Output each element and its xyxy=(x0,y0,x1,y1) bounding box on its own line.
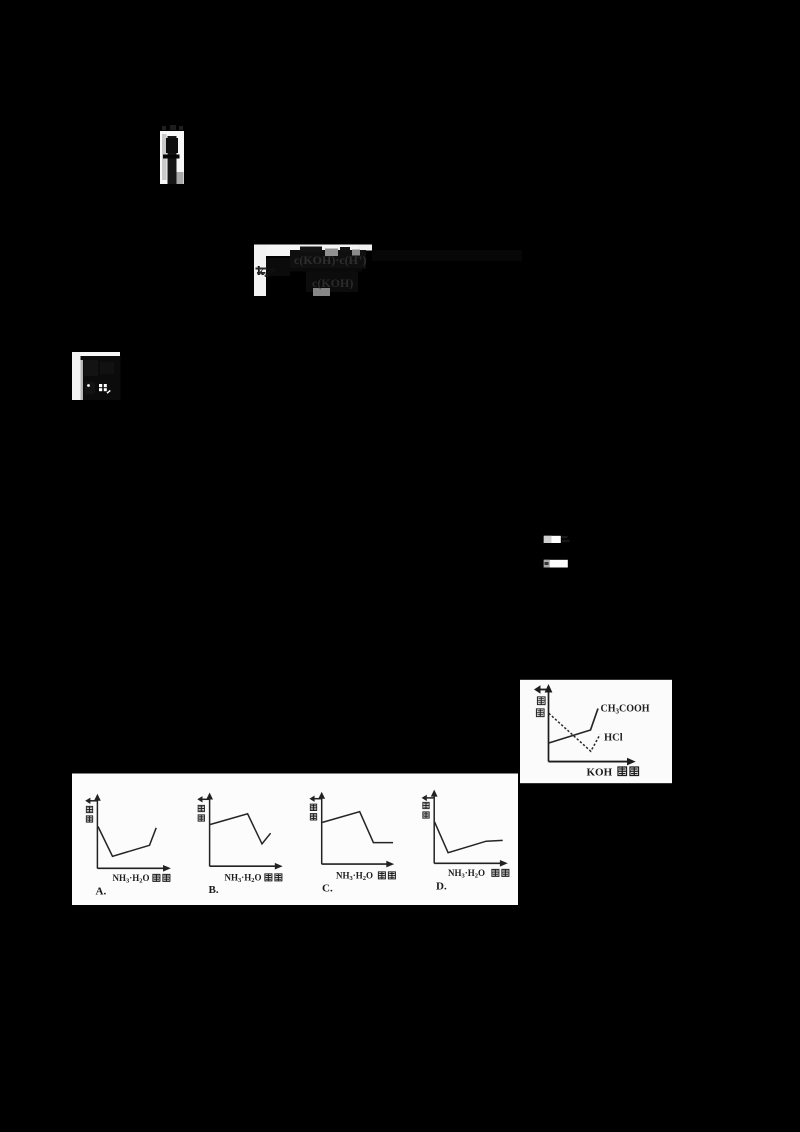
svg-text:NH3·H2O: NH3·H2O xyxy=(225,873,262,885)
svg-text:KOH: KOH xyxy=(587,767,613,779)
graph A y-label glyphs xyxy=(86,806,92,822)
graph C axes xyxy=(309,792,394,868)
graph D axes xyxy=(422,790,508,867)
KOH graph y-axis xyxy=(534,684,552,762)
graph C curve xyxy=(322,812,393,843)
HCl dashed curve xyxy=(549,713,600,751)
graph D y-label glyphs xyxy=(423,802,429,818)
graph B curve xyxy=(210,814,270,844)
graph C y-label glyphs xyxy=(310,804,316,820)
svg-text:C.: C. xyxy=(322,883,333,895)
svg-text:D.: D. xyxy=(436,881,447,893)
svg-text:B.: B. xyxy=(209,884,219,896)
graph B y-label glyphs xyxy=(198,805,204,821)
svg-text:NH3·H2O: NH3·H2O xyxy=(336,871,373,883)
svg-text:NH3·H2O: NH3·H2O xyxy=(113,873,150,885)
two small white scan rectangles xyxy=(544,536,570,568)
KOH graph x-axis xyxy=(549,758,636,766)
svg-text:HCl: HCl xyxy=(604,733,623,744)
equilibrium-constant formula block xyxy=(254,245,522,297)
svg-text:CH3COOH: CH3COOH xyxy=(601,704,650,716)
small text block (left margin fragment) xyxy=(72,352,121,400)
svg-text:A.: A. xyxy=(96,886,107,898)
fraction block (top-left scanned fragment) xyxy=(160,125,184,184)
svg-text:NH3·H2O: NH3·H2O xyxy=(448,868,485,880)
KOH graph y-axis label glyphs xyxy=(536,697,545,717)
graph A axes xyxy=(85,794,171,872)
CH3COOH solid curve xyxy=(549,709,598,744)
graph D curve xyxy=(435,822,503,853)
graph A curve xyxy=(98,827,156,857)
graph B axes xyxy=(197,793,282,870)
svg-text:c(KOH): c(KOH) xyxy=(312,276,353,290)
answer options strip xyxy=(72,774,518,906)
KOH titration graph box xyxy=(520,680,672,783)
svg-text:c(KOH)·c(H+): c(KOH)·c(H+) xyxy=(294,253,367,267)
